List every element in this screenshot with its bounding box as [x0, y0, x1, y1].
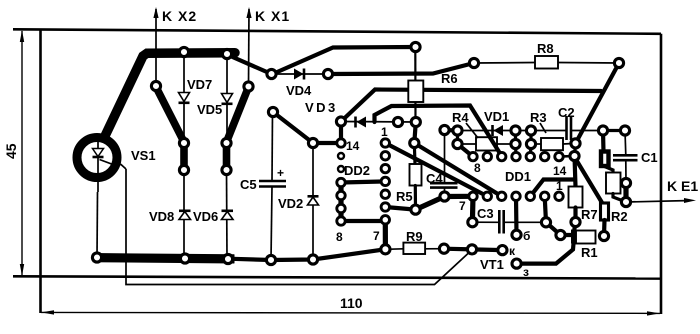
resistor R1 box — [576, 231, 596, 244]
wire K X1 vertical — [248, 9, 251, 86]
diode VD5 symbol — [222, 94, 233, 104]
trace stub x531 row2 to DD1 — [529, 144, 533, 157]
thyristor VS1 symbol — [93, 140, 127, 193]
pad C5 top — [268, 107, 277, 116]
diode VD1 line — [458, 130, 516, 132]
svg-text:C4: C4 — [426, 171, 443, 186]
svg-text:VD6: VD6 — [193, 209, 218, 224]
pad VD2 top — [308, 138, 317, 147]
trace DD1 pad elbow to R7 top junction — [530, 180, 575, 197]
svg-text:C2: C2 — [558, 105, 575, 120]
diode VD7 symbol — [179, 93, 190, 103]
pad R8 left — [469, 58, 478, 67]
thick bar VD5 pad to VD6 pad — [223, 143, 231, 170]
capacitor C1 bottom lead — [625, 160, 627, 183]
pad C1 bottom — [621, 178, 630, 187]
capacitor C1 top lead — [624, 131, 627, 156]
trace DD1 pad down to VT1 base pad — [514, 196, 519, 235]
board outline left edge — [39, 29, 42, 313]
pad C3 left — [468, 218, 477, 227]
capacitor C3 plates — [499, 210, 503, 234]
diode VD3 line — [341, 121, 416, 124]
trace R8 right pad to R3 right pad — [576, 63, 620, 143]
trace bus end to C5/VD2 bottom pads to pad 7 — [232, 249, 385, 260]
pad R1 right — [599, 231, 608, 240]
pad VD4 right — [323, 69, 332, 78]
resistor R8 lead left — [474, 62, 535, 65]
resistor R6 vertical line — [414, 47, 416, 122]
resistor R1 left bar — [571, 230, 576, 244]
trace R6 pad to R5 top pad — [414, 122, 416, 143]
diode VD2 symbol — [308, 196, 319, 205]
pad R3 left — [526, 139, 535, 148]
trace R3 right pad to junction pad — [575, 143, 576, 156]
resistor R5 lead top — [413, 143, 417, 164]
capacitor C3 lead right — [504, 221, 546, 223]
trace junction pad to DD1 pin14 pad — [559, 155, 575, 158]
resistor R9 box — [403, 243, 425, 254]
pad C4 bottom — [440, 192, 449, 201]
svg-text:R6: R6 — [441, 71, 458, 86]
pad row y130 x531 — [526, 126, 535, 135]
resistor R8 box — [535, 56, 558, 69]
svg-text:14: 14 — [553, 164, 567, 178]
pad C4 top — [440, 125, 449, 134]
board outline bottom edge — [13, 276, 661, 278]
pad VD3 right — [393, 117, 402, 126]
trace C2 pads pair — [603, 129, 625, 132]
svg-text:1: 1 — [556, 179, 563, 193]
dimension 110 right arrowhead — [647, 311, 660, 315]
IC DD2 left column thick bar — [338, 183, 343, 222]
pad VD1 right — [511, 126, 520, 135]
resistor R2 box — [606, 173, 621, 194]
trace VD2 pad to DD2 pin14 pad — [313, 141, 341, 145]
trace R7 pad into R1 left bar — [574, 222, 576, 232]
trace stub x515 rows — [514, 131, 517, 145]
pad DD2 pin7 node — [381, 245, 390, 254]
svg-text:C5: C5 — [240, 177, 257, 192]
svg-text:7: 7 — [373, 229, 380, 243]
pad R1 feed — [556, 230, 565, 239]
svg-text:R5: R5 — [396, 189, 413, 204]
pad VD4 left — [267, 69, 276, 78]
resistor R7 lead top — [575, 156, 576, 187]
thyristor VS1 ring — [77, 138, 117, 178]
svg-text:K X2: K X2 — [162, 8, 197, 24]
svg-text:C3: C3 — [477, 206, 494, 221]
capacitor C1 plates — [613, 155, 638, 160]
resistor R7 lead bottom — [573, 208, 577, 223]
trace stub x457 rows — [456, 131, 459, 145]
capacitor C4 top lead — [444, 130, 446, 183]
trace R2 lower box to R1 right pad — [602, 220, 607, 236]
trace DD2 pin8 row to right column — [341, 219, 385, 223]
trace pad to R1 left bar — [561, 233, 572, 237]
svg-text:VD1: VD1 — [484, 109, 509, 124]
trace stub x515 row2 to DD1 — [514, 144, 518, 157]
IC DD2 left column pads — [337, 139, 345, 225]
pad VD8 top — [179, 165, 188, 174]
resistor R4 box — [476, 137, 497, 150]
pad R5 bottom — [411, 205, 420, 214]
svg-text:з: з — [523, 265, 529, 279]
pad on top bus right — [222, 49, 231, 58]
pad R6-R5 node — [410, 138, 419, 147]
diode VD6 symbol — [222, 211, 234, 220]
trace junction pad diagonal to R2 lower box — [575, 157, 603, 204]
wire C2 right plate to pad — [571, 130, 603, 132]
trace R5 bottom pad to C4 pad to DD1 pin7 pad — [416, 196, 474, 209]
pad K X1 — [244, 82, 253, 91]
resistor R5 box — [410, 164, 422, 186]
pad C1 top — [620, 126, 629, 135]
svg-text:VD3: VD3 — [305, 100, 338, 115]
svg-text:R1: R1 — [581, 245, 598, 260]
trace C5 pad to VD2 top pad — [273, 112, 313, 143]
svg-text:к: к — [509, 244, 516, 258]
svg-text:45: 45 — [3, 143, 19, 159]
wire row y130 to C2 left plate — [516, 130, 567, 132]
pad R6 top — [411, 42, 420, 51]
pad VD5 bottom — [222, 138, 231, 147]
capacitor C2 plates — [567, 116, 572, 140]
capacitor C4 plates — [430, 183, 458, 187]
trace C2 pad down to C1 block — [601, 131, 606, 153]
IC DD1 bottom row pads — [469, 192, 563, 200]
pad R8 right — [614, 58, 623, 67]
K X2 arrowhead — [153, 7, 158, 18]
pad K X2 — [151, 81, 160, 90]
pad VT1 emitter — [512, 259, 521, 268]
pad VD1 left — [453, 126, 462, 135]
IC DD2 right column pads — [381, 139, 389, 224]
svg-text:14: 14 — [346, 139, 360, 153]
IC DD1 top row pads — [469, 152, 563, 160]
trace T0 VD4 pad up to R6 top pad — [272, 47, 416, 75]
svg-text:8: 8 — [474, 161, 481, 175]
dimension 110 line — [41, 312, 660, 313]
thick bar DD2 right col to pad 7 — [383, 220, 388, 250]
pad C5 bottom — [266, 255, 275, 264]
wire VS1 gate down below board — [126, 169, 472, 285]
resistor R3 leader line — [540, 123, 546, 133]
pad junction R7 top — [570, 151, 579, 160]
capacitor C1 polarized block — [601, 152, 609, 167]
svg-text:R3: R3 — [530, 110, 547, 125]
resistor R2 bottom elbow — [613, 194, 626, 203]
diode VD7 line — [183, 52, 185, 143]
pad on top bus left — [179, 47, 188, 56]
resistor R3 lead left — [531, 143, 541, 145]
capacitor C5 bottom lead — [271, 187, 272, 261]
svg-text:DD2: DD2 — [344, 163, 370, 178]
trace VT1 emitter pad to R1 — [521, 244, 574, 264]
pad VD7 bottom — [179, 138, 188, 147]
pad VT1 base — [512, 230, 521, 239]
K X1 arrowhead — [246, 7, 251, 18]
capacitor C5 plates — [259, 181, 286, 187]
svg-text:C1: C1 — [641, 150, 658, 165]
svg-text:VT1: VT1 — [480, 257, 504, 272]
pad VD6 top — [222, 165, 231, 174]
trace VD1 row pads — [445, 128, 458, 133]
trace DD1 pad down to C3 right junction — [545, 196, 546, 222]
svg-text:VS1: VS1 — [131, 148, 156, 163]
thick bottom bus trace — [93, 254, 234, 264]
resistor R9 lead left — [385, 248, 403, 251]
svg-text:K X1: K X1 — [255, 8, 290, 24]
pad C3 right junction — [541, 218, 550, 227]
svg-text:110: 110 — [340, 295, 363, 311]
svg-text:R4: R4 — [452, 110, 469, 125]
pad VD3 left — [336, 117, 345, 126]
resistor R4 leader line — [466, 123, 478, 138]
thick trace B pad KX1 to VD5 pad — [227, 87, 249, 142]
capacitor C3 lead left — [472, 221, 499, 223]
diode VD2 line — [312, 143, 314, 260]
dimension 110 left arrowhead — [41, 310, 54, 314]
pad C2 right — [598, 126, 607, 135]
K E1 arrowhead — [684, 198, 696, 203]
trace stub x531 rows — [529, 131, 532, 145]
trace DD2 left pad to right pad horizontal — [341, 181, 385, 182]
pad bus 2 — [180, 254, 189, 263]
resistor R6 box — [408, 81, 423, 103]
diode VD6 line — [226, 170, 229, 259]
thick bar C1 pad to K E1 pad — [623, 183, 628, 202]
trace node VD3 left pad down to DD2 pin14 — [339, 122, 343, 144]
dimension 45 bottom arrowhead — [20, 264, 24, 276]
resistor R3 lead right — [563, 142, 576, 145]
pad R4 right — [511, 139, 520, 148]
resistor R2 lower box — [601, 203, 609, 220]
svg-text:1: 1 — [381, 125, 388, 139]
resistor R5 lead bottom — [414, 186, 417, 210]
pad R9 right — [439, 244, 448, 253]
wire VS1 cathode to bus pad — [96, 192, 99, 258]
pad VT1 collector — [498, 246, 507, 255]
svg-text:R2: R2 — [611, 209, 628, 224]
trace VD4 right pad to R8 — [328, 63, 474, 74]
svg-text:R7: R7 — [581, 207, 598, 222]
resistor R4 lead right — [497, 143, 516, 145]
svg-text:+: + — [277, 166, 284, 180]
resistor R9 lead right — [425, 248, 444, 250]
diode VD8 symbol — [179, 211, 191, 220]
diode VD3 symbol — [356, 117, 367, 128]
trace DD1 pin7 pad down to C3 left pad — [470, 196, 476, 222]
trace Path1 VD3 pad to long horizontal — [341, 90, 601, 122]
diode VD1 symbol — [493, 125, 504, 136]
thick bar VD7 pad to VD8 pad — [180, 143, 188, 170]
pad bus 3 — [223, 254, 232, 263]
svg-text:DD1: DD1 — [505, 169, 531, 184]
thick trace A pad KX2 to VD7 pad — [156, 87, 184, 142]
pad VD2 bottom — [308, 255, 317, 264]
dimension 45 top arrowhead — [20, 30, 24, 42]
trace R9 pad to VT1 collector pad — [444, 249, 502, 250]
svg-text:VD7: VD7 — [187, 77, 212, 92]
svg-text:8: 8 — [336, 230, 343, 244]
svg-text:VD2: VD2 — [278, 196, 303, 211]
dimension 45 line — [21, 31, 23, 275]
pad R4 left — [453, 139, 462, 148]
resistor R3 box — [541, 138, 563, 150]
thick trace VS1 ring to top bus corner — [105, 53, 235, 136]
resistor R7 box — [569, 187, 583, 208]
wire K X2 vertical — [155, 9, 157, 86]
resistor R4 lead left — [458, 143, 477, 145]
svg-text:б: б — [523, 229, 530, 243]
svg-text:VD8: VD8 — [149, 209, 174, 224]
capacitor C5 top lead — [271, 112, 274, 181]
resistor R2 top elbow — [605, 167, 614, 173]
diode VD4 symbol — [294, 69, 304, 80]
trace pad 457 to DD1 pin8 pad — [458, 144, 474, 157]
diode VD4 line — [272, 73, 329, 75]
pad bus 1 — [92, 253, 101, 262]
svg-text:R9: R9 — [406, 229, 423, 244]
pad K E1 — [621, 197, 630, 206]
trace Path2 tee to DD1 pin top — [375, 106, 503, 157]
trace C3 junction diagonal to pad — [546, 222, 561, 235]
svg-text:VD5: VD5 — [197, 102, 222, 117]
pad R3 right — [571, 139, 580, 148]
svg-text:VD4: VD4 — [286, 83, 312, 98]
diode VD8 line — [183, 170, 185, 259]
diode VD5 line — [226, 54, 228, 143]
svg-text:K E1: K E1 — [667, 178, 698, 194]
svg-text:R8: R8 — [537, 41, 554, 56]
wire K E1 arrow — [626, 201, 691, 203]
pad R6 bottom — [411, 117, 420, 126]
resistor R8 lead right — [558, 62, 619, 65]
svg-text:7: 7 — [459, 199, 466, 213]
board outline right edge — [660, 34, 663, 314]
trace DIAG-2 R6 node to DD1 pad — [414, 143, 501, 196]
trace DD2 right col pad to R5 bottom pad — [385, 207, 415, 210]
trace DIAG-1 DD2 pin1 to DD1 pad — [385, 143, 487, 196]
board outline top edge — [13, 29, 661, 34]
capacitor C4 bottom lead — [444, 188, 446, 197]
pad R7 bottom — [571, 217, 580, 226]
pad VT1 link — [467, 245, 476, 254]
trace top bus to VD4 pad — [228, 55, 272, 74]
